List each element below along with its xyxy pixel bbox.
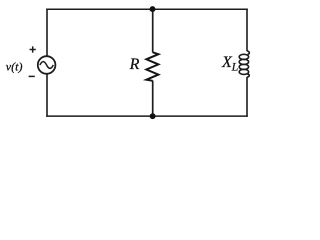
wire: bottom horizontal <box>46 115 248 117</box>
wire: right vertical top segment <box>246 9 248 52</box>
resistor R: zigzag <box>146 52 158 81</box>
source V1: minus sign <box>29 75 35 77</box>
inductor XL: loop 4 <box>239 69 248 74</box>
wire: middle branch bottom segment <box>152 81 154 117</box>
svg-text:R: R <box>129 56 140 73</box>
inductor XL: loop 2 <box>239 59 248 64</box>
source V1: sine symbol <box>40 62 53 69</box>
node: bottom junction dot <box>150 113 156 119</box>
inductor XL: loop 3 <box>239 64 248 69</box>
wire: right vertical bottom segment <box>246 77 248 117</box>
inductor XL: entry hook <box>247 51 249 55</box>
source V1: plus sign <box>30 46 36 52</box>
inductor XL: exit hook <box>247 74 249 77</box>
svg-text:v(t): v(t) <box>6 60 23 74</box>
inductor XL: loop 1 <box>239 54 248 59</box>
wire: left vertical bottom segment <box>46 74 48 117</box>
node: top junction dot <box>150 6 156 12</box>
svg-text:L: L <box>231 60 239 74</box>
wire: middle branch top segment <box>152 9 154 52</box>
wire: top horizontal <box>46 8 248 10</box>
source V1: circle <box>38 56 56 74</box>
wire: left vertical top segment <box>46 9 48 57</box>
